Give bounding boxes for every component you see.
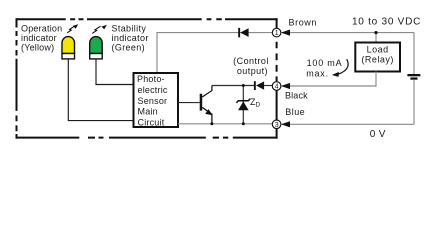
wire: diode to terminal 4: [264, 85, 272, 87]
svg-text:Load: Load: [367, 44, 389, 54]
svg-text:max.: max.: [306, 68, 329, 78]
svg-text:(Control: (Control: [233, 56, 269, 66]
LED emission arrow (yellow LED): [67, 24, 78, 33]
diode D4 series output protection: [254, 81, 264, 90]
svg-text:Stability: Stability: [112, 23, 147, 33]
arrowhead into terminal 1: [281, 30, 290, 36]
wire: right supply rail down to battery: [413, 33, 415, 75]
svg-text:Brown: Brown: [289, 17, 318, 27]
wire: blue 0V wire: [281, 123, 414, 125]
wire: green LED cathode leg down and right into main circuit: [96, 59, 134, 85]
svg-text:(Relay): (Relay): [361, 55, 394, 65]
label: Operation indicator (Yellow): [21, 23, 62, 52]
transistor Q1 NPN output: [200, 86, 213, 124]
wire: collector to output terminal line: [212, 85, 254, 87]
arrowhead into terminal 4: [281, 83, 290, 89]
load relay box: [355, 43, 400, 72]
svg-text:(Green): (Green): [112, 43, 145, 53]
svg-text:Main: Main: [138, 107, 158, 117]
terminal 1: [272, 28, 281, 37]
sensor enclosure dashed border bottom: [16, 137, 278, 139]
svg-text:Black: Black: [285, 91, 308, 101]
terminal 4: [272, 82, 281, 91]
diode D3 reverse polarity protection on supply line: [238, 28, 248, 37]
svg-text:Photo-: Photo-: [137, 74, 165, 84]
photoelectric sensor main circuit box U1: [134, 73, 179, 128]
wire: load bottom down to black output wire: [281, 72, 376, 87]
svg-text:100 mA: 100 mA: [307, 58, 343, 68]
arrowhead into terminal 3: [281, 121, 290, 127]
label: Stability indicator (Green): [112, 23, 149, 52]
wire: brown supply wire: [281, 32, 414, 34]
svg-text:Blue: Blue: [285, 107, 305, 117]
sensor enclosure dashed border left: [16, 18, 18, 138]
junction: emitter to 0V rail: [210, 122, 213, 125]
svg-text:4: 4: [275, 84, 279, 91]
terminal 3: [272, 120, 281, 129]
LED emission arrow (green LED): [92, 25, 107, 34]
LED D2 stability indicator green: [90, 37, 103, 59]
LED D1 operation indicator yellow: [62, 37, 75, 59]
svg-text:Sensor: Sensor: [138, 96, 168, 106]
wire: supply feed from terminal 1 line down into main circuit top: [157, 33, 272, 73]
label 100 mA max.: [306, 58, 342, 78]
svg-text:electric: electric: [138, 85, 168, 95]
wire: internal 0V rail from main circuit to terminal 3: [178, 123, 273, 125]
svg-text:indicator: indicator: [112, 33, 149, 43]
svg-text:Operation: Operation: [21, 23, 62, 33]
svg-text:0 V: 0 V: [370, 129, 386, 140]
svg-text:3: 3: [275, 122, 279, 129]
curved arrow pointing at output wire: [332, 59, 348, 77]
junction: zener to output line: [242, 84, 245, 87]
wire: battery to 0V line: [413, 80, 415, 125]
sensor enclosure dashed border top: [16, 18, 278, 20]
sensor enclosure dashed border right: [276, 18, 278, 138]
svg-text:indicator: indicator: [21, 33, 57, 43]
svg-text:(Yellow): (Yellow): [21, 43, 54, 53]
wire: base drive from main circuit to transistor: [178, 102, 200, 104]
zener diode ZD across output: [236, 86, 250, 124]
junction: load to brown wire: [374, 31, 377, 34]
wire: load top connection to supply: [375, 33, 377, 43]
label: (Control output): [233, 56, 269, 76]
svg-text:output): output): [237, 66, 268, 76]
svg-text:10 to 30 VDC: 10 to 30 VDC: [352, 16, 421, 27]
svg-text:1: 1: [275, 30, 279, 37]
wire: yellow LED cathode leg down and right into main circuit: [68, 59, 134, 121]
battery BT1 supply source: [407, 74, 420, 80]
junction: zener to 0V rail: [242, 122, 245, 125]
svg-text:Circuit: Circuit: [138, 118, 165, 128]
